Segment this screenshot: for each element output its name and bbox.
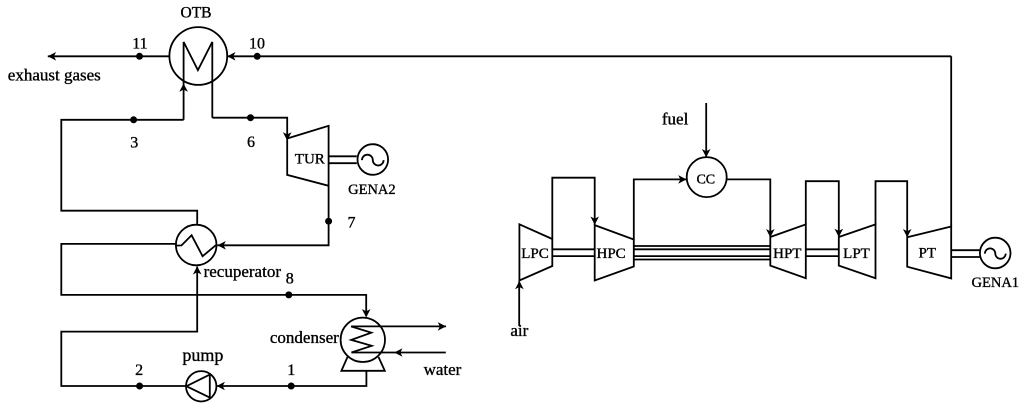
cooling water outlet [351,325,446,327]
wire recuperator to condenser (node 8) [61,244,366,316]
condenser base [341,357,384,371]
shaft LPC-HPC [552,248,594,250]
svg-text:GENA1: GENA1 [972,275,1020,291]
duct LPT to PT [876,181,908,236]
pump triangle [186,375,209,398]
svg-text:OTB: OTB [181,5,212,22]
arrowhead into LPT [835,229,844,237]
compressor HPC [595,225,634,280]
svg-text:7: 7 [348,215,356,232]
svg-text:condenser: condenser [270,328,339,347]
arrowhead into TUR [283,132,292,140]
shaft HPT-LPT [806,248,839,250]
svg-text:exhaust gases: exhaust gases [8,65,101,84]
fuel line [705,103,707,157]
shaft PT-GENA1 [951,249,980,251]
node 11 dot [136,53,143,60]
node 8 dot [285,291,292,298]
cooling water inlet [351,352,445,354]
arrowhead into OTB right [227,52,235,61]
arrow into OTB bottom [179,84,188,92]
recuperator circle [176,225,217,266]
node 1 dot [288,383,295,390]
turbine LPT [839,224,876,278]
arrowhead into HPT [766,229,775,237]
arrowhead into condenser top [362,309,371,317]
svg-text:LPT: LPT [843,246,870,262]
arrowhead into CC [678,175,686,184]
generator GENA2 [358,144,389,175]
svg-text:GENA2: GENA2 [348,182,396,198]
svg-text:LPC: LPC [521,246,549,262]
svg-text:HPC: HPC [597,246,626,262]
condenser zigzag [351,326,372,352]
svg-text:10: 10 [249,35,265,52]
compressor LPC [519,224,552,280]
arrowhead exhaust left [48,52,56,61]
turbine PT [907,227,951,279]
wire recuperator to OTB (node 3) [61,120,197,224]
arrowhead into pump [217,382,225,391]
svg-text:2: 2 [135,362,143,379]
wire exhaust out left (node 11) [48,55,170,57]
svg-text:fuel: fuel [662,110,689,129]
node 3 dot [130,116,137,123]
wire exhaust riser [950,56,952,226]
node 6 dot [247,114,254,121]
shaft HPC-HPT (concentric) [634,245,771,247]
svg-text:HPT: HPT [773,246,801,262]
pump circle [186,371,216,401]
svg-text:8: 8 [286,271,294,288]
combustion chamber CC [687,157,727,197]
svg-text:pump: pump [182,345,223,365]
generator GENA1 [980,238,1011,269]
node 7 dot [325,218,332,225]
arrowhead into recuperator bottom [193,266,202,274]
node 10 dot [254,53,261,60]
turbine HPT [770,224,806,278]
duct HPT to LPT [806,181,839,236]
wire HPC to CC [634,179,687,239]
svg-text:1: 1 [287,362,295,379]
svg-text:3: 3 [130,135,138,152]
svg-text:water: water [424,360,462,379]
arrowhead into recuperator right [218,241,226,250]
node 2 dot [136,383,143,390]
arrowhead into HPC [590,217,599,225]
OTB M-coil left stroke / feed pipe [183,42,185,120]
wire CC to HPT [727,179,771,236]
svg-text:TUR: TUR [295,151,325,167]
svg-text:air: air [510,321,528,340]
recuperator zigzag [176,235,216,256]
wire TUR to recuperator (node 7) [218,186,329,246]
OTB M-coil V [184,42,213,70]
condenser circle [341,318,385,362]
wire pump to recuperator (node 2) [61,267,197,387]
wire OTB to TUR (node 6) [212,118,287,139]
turbine TUR [287,126,328,186]
OTB M-coil right stroke / steam pipe [211,42,213,118]
arrowhead into PT [903,229,912,237]
svg-text:11: 11 [132,35,147,52]
OTB boiler circle [169,27,227,85]
svg-text:CC: CC [696,172,715,187]
air inlet arrow [518,282,520,327]
wire condenser to pump (node 1) [217,371,367,386]
wire exhaust from PT to OTB (node 10) [227,55,951,57]
svg-text:PT: PT [919,246,937,262]
svg-text:recuperator: recuperator [204,262,282,281]
duct LPC to HPC [552,178,594,239]
svg-text:6: 6 [247,134,255,151]
shaft TUR-GENA2 [329,155,357,157]
